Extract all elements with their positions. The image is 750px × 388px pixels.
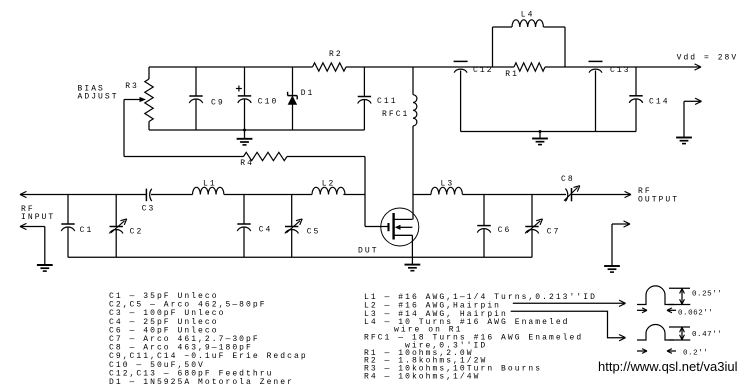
wire: C13 corner down through C14: [635, 67, 637, 96]
resistor R4: [244, 152, 288, 160]
dimension lines 0.25 inch: [669, 287, 690, 289]
resistor R2: [313, 63, 347, 71]
svg-text:http://www.qsl.net/va3iul: http://www.qsl.net/va3iul: [598, 359, 738, 374]
capacitor C3 (series): [145, 189, 147, 202]
inductor L2: [312, 187, 345, 194]
trimmer capacitor C8 (series): [565, 189, 567, 202]
svg-text:C1: C1: [80, 226, 94, 235]
svg-text:C3: C3: [142, 205, 156, 214]
svg-text:C13: C13: [610, 66, 631, 75]
MOSFET body arrow: [399, 226, 412, 228]
svg-text:C9: C9: [211, 99, 225, 108]
capacitor C10 (electrolytic): [244, 67, 246, 96]
wire: R4 to gate node: [287, 156, 365, 158]
svg-text:R3: R3: [125, 82, 139, 91]
probe stub at RF output: [612, 223, 629, 225]
arrowhead RF input ground stub: [20, 227, 26, 230]
svg-text:R1: R1: [505, 70, 519, 79]
potentiometer R3: [148, 67, 150, 79]
wire: bias network bottom line: [149, 129, 364, 131]
wire: feedthrough bottom bus: [461, 131, 636, 133]
arrowhead RF output: [625, 191, 631, 194]
svg-text:L1: L1: [203, 180, 217, 189]
ground at Vdd probe stub: [676, 137, 692, 139]
capacitor C14: [629, 95, 642, 97]
wire: input ground stub: [20, 226, 45, 228]
svg-text:C10: C10: [258, 98, 279, 107]
wire: bottom ground bus: [68, 256, 532, 258]
hairpin inductor drawing (L2): [637, 286, 674, 305]
svg-text:L4: L4: [521, 11, 535, 20]
svg-text:C2: C2: [130, 227, 144, 236]
svg-text:0.062'': 0.062'': [678, 310, 713, 318]
trimmer capacitor C5: [291, 195, 293, 227]
svg-text:0.25'': 0.25'': [692, 290, 722, 298]
svg-text:L3: L3: [441, 180, 455, 189]
ground on feedthrough bus: [539, 130, 542, 133]
svg-text:RFC1: RFC1: [382, 110, 409, 119]
wire: L4 branch right vertical: [564, 27, 566, 67]
wire: rail to Vdd arrow: [636, 66, 700, 68]
svg-text:OUTPUT: OUTPUT: [638, 196, 679, 205]
svg-text:0.2'': 0.2'': [683, 350, 708, 358]
hairpin inductor drawing (L3): [637, 325, 674, 341]
svg-text:DUT: DUT: [358, 247, 379, 256]
svg-text:C8: C8: [561, 175, 575, 184]
ground at output probe stub: [604, 265, 620, 267]
callout line from L3 entry to hairpin drawing: [511, 311, 624, 337]
svg-text:R4: R4: [240, 159, 254, 168]
wire: wiper down-lead: [123, 100, 125, 157]
MOSFET gate bar: [387, 223, 389, 231]
width arrows 0.2 inch: [637, 350, 646, 352]
plus sign of C10: [236, 88, 242, 90]
MOSFET drain lead: [394, 218, 413, 220]
svg-text:0.47'': 0.47'': [692, 331, 722, 339]
trimmer capacitor C7: [531, 195, 533, 227]
svg-text:C4: C4: [259, 226, 273, 235]
svg-text:C11: C11: [377, 97, 398, 106]
arrowhead RF input: [20, 195, 26, 198]
ground at DUT source: [405, 264, 421, 266]
svg-text:ADJUST: ADJUST: [78, 92, 119, 101]
arrowhead Vdd: [695, 64, 701, 67]
wire: L2 to gate node: [343, 194, 365, 196]
wire: L1 to C4/C5/L2: [224, 194, 312, 196]
svg-text:L2: L2: [322, 180, 336, 189]
ground at RF input: [37, 264, 53, 266]
svg-text:C5: C5: [307, 227, 321, 236]
wire: RF input line to C3: [20, 194, 146, 196]
wire: L4 top lead right: [543, 26, 565, 28]
transistor DUT (MOSFET) circle: [381, 208, 419, 246]
RF choke RFC1: [412, 67, 414, 95]
probe stub at Vdd (decoupling point): [684, 100, 700, 102]
ground at bias network: [243, 129, 246, 132]
wire: rail R2 to L4/R1 block: [346, 66, 493, 68]
capacitor C6: [483, 195, 485, 226]
svg-text:INPUT: INPUT: [21, 213, 55, 222]
svg-text:C7: C7: [547, 227, 561, 236]
wire: gate node down and to MOSFET gate: [364, 195, 366, 227]
resistor R1 (on rail, parallel with L4): [493, 66, 515, 68]
inductor L4: [512, 20, 543, 27]
zener diode D1: [292, 67, 294, 96]
capacitor C9: [195, 67, 197, 96]
inductor L3: [431, 187, 462, 194]
svg-text:C6: C6: [498, 226, 512, 235]
svg-text:D1: D1: [301, 89, 315, 98]
wiper arrow of R3: [124, 99, 140, 101]
wire: L4 branch left vertical: [492, 27, 494, 67]
feedthrough capacitor C12: [454, 60, 468, 62]
width arrows 0.062 inch: [637, 309, 646, 311]
wire: source down to ground bus: [411, 235, 413, 264]
trimmer capacitor C2: [115, 195, 117, 227]
MOSFET channel bar: [392, 213, 394, 240]
wire: L4 top lead left: [493, 26, 513, 28]
wire: C8 to RF output arrow: [572, 194, 630, 196]
wire: rail L4 block to C13/C14 corner: [565, 66, 636, 68]
feedthrough capacitor C13: [589, 60, 603, 62]
MOSFET source lead: [394, 234, 413, 236]
wire: wiper lead to R4: [124, 156, 244, 158]
inductor L1: [193, 187, 224, 194]
wire: Vdd rail from R3 top to R2: [149, 66, 313, 68]
capacitor C1: [67, 195, 69, 225]
svg-text:Vdd = 28V: Vdd = 28V: [677, 53, 739, 62]
capacitor C4: [243, 195, 245, 225]
wire: L3 to C6/C7/C8: [462, 194, 566, 196]
svg-text:R2: R2: [329, 50, 343, 59]
svg-text:C12: C12: [473, 66, 494, 75]
capacitor C11: [363, 67, 365, 97]
wire: drain node to L3: [412, 194, 431, 196]
callout line from L2 entry to hairpin drawing: [513, 302, 624, 304]
wire: down to gate node: [364, 157, 366, 195]
dimension lines 0.47 inch: [669, 326, 690, 328]
svg-text:C14: C14: [649, 98, 670, 107]
